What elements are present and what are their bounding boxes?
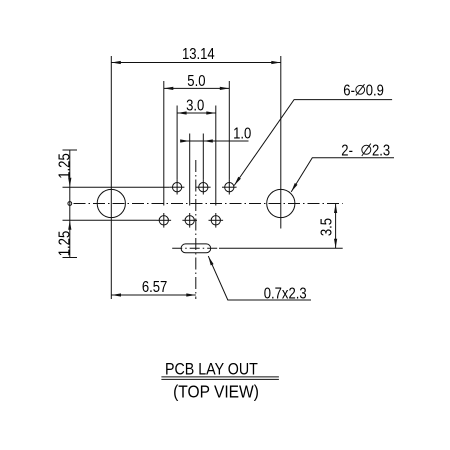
dimension 6.57 — [112, 279, 196, 296]
small hole bottom-middle with crosshair — [182, 213, 197, 228]
small hole top-right with crosshair — [222, 180, 237, 195]
leader and label 6-dia0.9 small holes callout — [234, 83, 392, 186]
svg-text:5.0: 5.0 — [187, 73, 205, 90]
horizontal center axis dash-dot — [74, 203, 343, 205]
leader and label 0.7x2.3 slot callout — [208, 256, 311, 303]
right big-circle vertical centerline and extension line — [280, 56, 282, 229]
left big-circle vertical centerline and extension line — [110, 56, 112, 299]
dimension 13.14 overall width — [111, 46, 280, 64]
small hole top-middle with crosshair — [196, 180, 211, 195]
extension line 1.0 right — [202, 134, 204, 180]
dimension 5.0 — [164, 73, 230, 90]
extension line 3.0 left — [176, 106, 178, 180]
central vertical axis dash-dot — [195, 160, 197, 299]
svg-text:2-: 2- — [341, 142, 353, 159]
svg-text:(TOP VIEW): (TOP VIEW) — [173, 383, 259, 402]
svg-text:1.25: 1.25 — [57, 153, 74, 179]
svg-text:6-: 6- — [343, 83, 355, 100]
svg-text:1.0: 1.0 — [233, 126, 251, 143]
row1 axis extension line — [63, 186, 170, 188]
dimension 3.5 right side — [319, 204, 338, 249]
svg-text:PCB LAY OUT: PCB LAY OUT — [165, 360, 258, 378]
row2 axis extension line — [63, 219, 157, 221]
extension line 5.0 left — [163, 81, 165, 206]
slot 0.7x2.3 — [181, 244, 211, 253]
svg-text:3.5: 3.5 — [319, 218, 336, 236]
big hole right — [267, 189, 295, 217]
slot horizontal axis — [172, 247, 343, 249]
extension line 1.0 left — [189, 134, 191, 206]
datum dot between the 1.25 dimensions — [68, 202, 72, 206]
title double underline — [161, 377, 279, 380]
dimension 1.0 — [180, 126, 251, 143]
small hole bottom-left with crosshair — [157, 213, 172, 228]
leader and label 2-dia2.3 big holes callout — [291, 142, 394, 191]
dimension 3.0 — [177, 98, 216, 115]
big hole left — [97, 189, 125, 217]
svg-text:0.9: 0.9 — [366, 83, 384, 100]
extension line 5.0 right — [228, 81, 230, 180]
svg-text:0.7x2.3: 0.7x2.3 — [264, 286, 307, 303]
extension line 3.0 right — [215, 106, 217, 206]
dimension 1.25 upper — [57, 150, 77, 258]
svg-text:2.3: 2.3 — [372, 142, 390, 159]
svg-text:3.0: 3.0 — [186, 98, 204, 115]
dimension 1.25 lower — [57, 220, 77, 257]
subtitle (TOP VIEW) — [173, 383, 259, 402]
svg-text:1.25: 1.25 — [57, 231, 74, 257]
svg-text:13.14: 13.14 — [182, 46, 215, 63]
small hole top-left with crosshair — [170, 180, 185, 195]
svg-text:6.57: 6.57 — [142, 279, 168, 296]
title PCB LAY OUT — [165, 360, 258, 378]
small hole bottom-right with crosshair — [209, 213, 224, 228]
